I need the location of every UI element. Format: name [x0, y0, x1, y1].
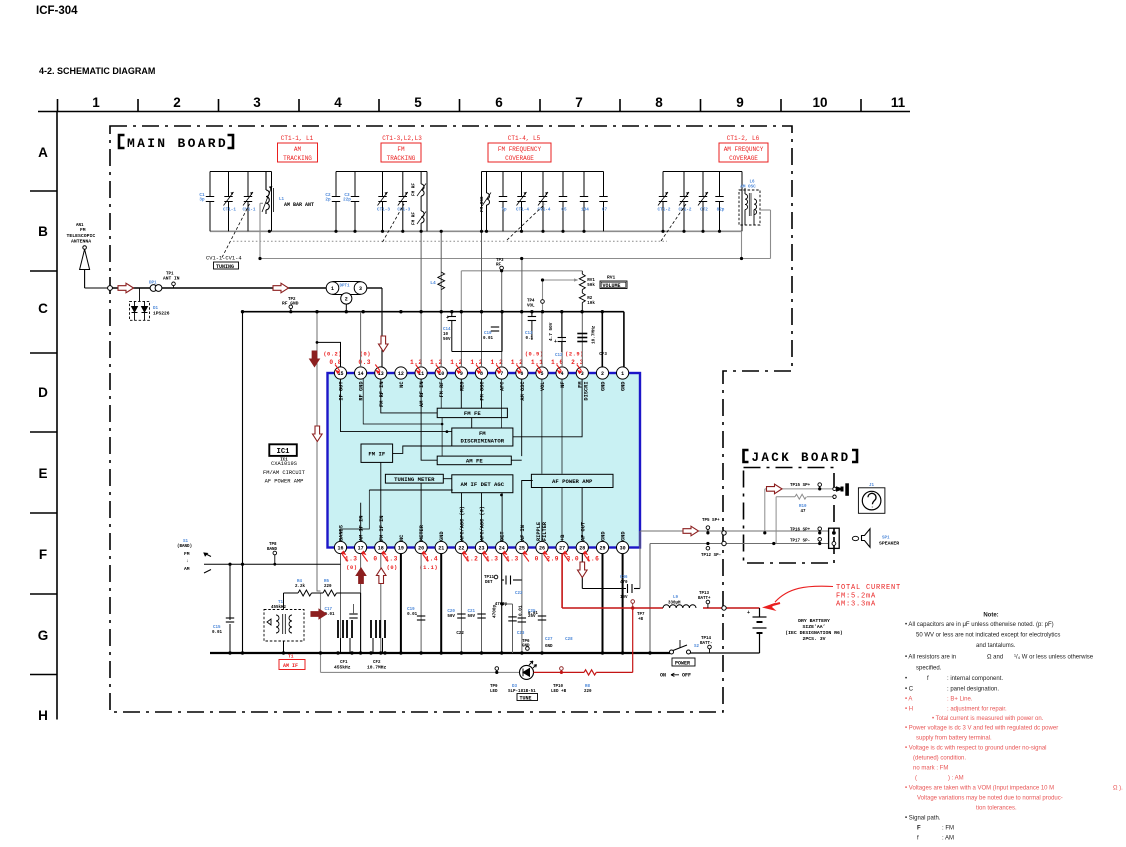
svg-text:CV1-3: CV1-3 [397, 208, 410, 213]
svg-text:SIZE’AA’: SIZE’AA’ [802, 624, 825, 630]
svg-text:(IEC DESIGNATION R6): (IEC DESIGNATION R6) [785, 630, 843, 636]
svg-text:• All capacitors are in μF unl: • All capacitors are in μF unless otherw… [905, 622, 1054, 628]
svg-text:L9: L9 [673, 596, 679, 600]
svg-text:AM FE: AM FE [466, 458, 483, 465]
svg-text:AM OSC: AM OSC [520, 381, 526, 401]
svg-text:4-2. SCHEMATIC DIAGRAM: 4-2. SCHEMATIC DIAGRAM [39, 66, 155, 76]
svg-text:• Voltages are taken with a VO: • Voltages are taken with a VOM (Input i… [905, 786, 1054, 792]
svg-text:• Total current is measured wi: • Total current is measured with power o… [932, 716, 1044, 722]
svg-text:CV1-1: CV1-1 [243, 208, 256, 213]
svg-text:455kHz: 455kHz [334, 665, 351, 671]
svg-text:12: 12 [398, 371, 404, 377]
svg-text:21: 21 [438, 546, 444, 552]
svg-text:DISCRIMINATOR: DISCRIMINATOR [460, 438, 504, 445]
svg-text:3.0: 3.0 [566, 556, 579, 563]
svg-text:F: F [917, 826, 921, 832]
svg-text:R4: R4 [297, 580, 303, 584]
svg-text:1.4: 1.4 [425, 556, 438, 563]
svg-text:supply from battery terminal.: supply from battery terminal. [916, 736, 992, 742]
svg-text:TRACKING: TRACKING [283, 155, 312, 162]
svg-text:1.3: 1.3 [345, 556, 358, 563]
svg-text:29: 29 [599, 546, 605, 552]
svg-text:2PCS. 3V: 2PCS. 3V [802, 636, 825, 642]
svg-text:TP4: TP4 [527, 300, 535, 304]
svg-text:AF IN: AF IN [520, 525, 526, 541]
svg-text:: adjustment for repair.: : adjustment for repair. [947, 707, 1007, 713]
svg-text:26: 26 [539, 546, 545, 552]
svg-text:4700p: 4700p [493, 604, 498, 618]
svg-text:2: 2 [173, 95, 181, 110]
svg-text:2.2k: 2.2k [295, 584, 306, 589]
svg-text:Ω and: Ω and [987, 655, 1003, 661]
svg-text:D: D [38, 385, 48, 400]
svg-text:TUNING METER: TUNING METER [394, 476, 435, 483]
svg-text:22p: 22p [343, 198, 351, 203]
svg-text:DP1: DP1 [149, 282, 157, 286]
svg-text:CF2: CF2 [373, 661, 381, 665]
svg-text:S2: S2 [694, 645, 700, 649]
svg-text:3: 3 [253, 95, 261, 110]
svg-text:470: 470 [620, 581, 628, 585]
svg-text:1: 1 [621, 371, 624, 377]
svg-text:: internal component.: : internal component. [947, 676, 1003, 682]
svg-text:GND: GND [522, 645, 530, 649]
svg-text:23: 23 [478, 546, 484, 552]
svg-text:C19: C19 [407, 608, 415, 612]
svg-text:10.7MHz: 10.7MHz [591, 325, 596, 344]
svg-text:0.01: 0.01 [483, 337, 494, 341]
svg-text:FM: FM [184, 551, 190, 557]
svg-text:GND: GND [545, 645, 553, 649]
svg-text:C15: C15 [213, 626, 221, 630]
svg-text:FM: FM [80, 227, 86, 233]
svg-text:MAIN BOARD: MAIN BOARD [127, 136, 228, 151]
svg-text:S1: S1 [183, 540, 189, 544]
svg-text:50 WV or less are not indicate: 50 WV or less are not indicated except f… [916, 633, 1060, 639]
svg-text:FM OSC: FM OSC [480, 196, 485, 212]
svg-text:AF POWER AMP: AF POWER AMP [552, 478, 593, 485]
svg-text:A: A [38, 145, 48, 160]
svg-text:•: • [905, 676, 907, 682]
svg-text:AFC: AFC [500, 381, 506, 391]
svg-text:L6: L6 [749, 181, 755, 185]
svg-text:RF: RF [496, 264, 502, 268]
svg-text:TRACKING: TRACKING [387, 155, 416, 162]
svg-text:RV1: RV1 [607, 275, 616, 281]
svg-text:TP6: TP6 [522, 640, 530, 644]
svg-text:CF3: CF3 [599, 353, 607, 357]
svg-text:VOLUME: VOLUME [603, 283, 621, 289]
svg-text:SPEAKER: SPEAKER [879, 541, 899, 547]
svg-text:330µH: 330µH [668, 602, 681, 606]
svg-text:: FM: : FM [942, 826, 954, 832]
svg-text:C20: C20 [447, 610, 455, 614]
svg-text:• H: • H [905, 707, 913, 713]
svg-text:C10: C10 [484, 332, 492, 336]
svg-text:• Signal path.: • Signal path. [905, 816, 941, 822]
svg-text:f: f [927, 676, 929, 682]
svg-text:50k: 50k [587, 283, 595, 288]
svg-text:TP8: TP8 [269, 543, 277, 547]
svg-text:AM FREQUNCY: AM FREQUNCY [724, 146, 764, 153]
svg-text:0.01: 0.01 [519, 605, 524, 616]
svg-text:0: 0 [535, 556, 539, 563]
svg-text:18: 18 [378, 546, 384, 552]
svg-text:CV1-4: CV1-4 [538, 208, 551, 213]
svg-text:C14: C14 [443, 328, 451, 332]
svg-text:POWER: POWER [675, 661, 690, 667]
svg-text:CT2: CT2 [700, 208, 708, 213]
svg-text:82p: 82p [717, 208, 725, 213]
svg-text:2.9: 2.9 [546, 556, 559, 563]
svg-text:DPT1: DPT1 [340, 285, 351, 289]
svg-text:ANTENNA: ANTENNA [71, 239, 91, 245]
svg-text:FM RF IN: FM RF IN [379, 382, 385, 407]
svg-text:455kHz: 455kHz [271, 605, 287, 610]
svg-text:9: 9 [736, 95, 744, 110]
svg-text:DET: DET [485, 581, 493, 585]
svg-text:CT1-2, L6: CT1-2, L6 [727, 135, 760, 142]
svg-text:+B: +B [638, 618, 644, 622]
svg-text:C13: C13 [525, 332, 533, 336]
svg-text:0: 0 [373, 556, 377, 563]
svg-text:(0): (0) [360, 352, 371, 358]
svg-text:NF: NF [560, 382, 566, 388]
svg-text:JACK BOARD: JACK BOARD [752, 451, 851, 465]
svg-text:AM BAR ANT: AM BAR ANT [284, 202, 314, 208]
svg-text:0.01: 0.01 [407, 613, 418, 617]
svg-text:CT1-3: CT1-3 [377, 208, 390, 213]
svg-text:220: 220 [324, 585, 332, 589]
svg-text:+: + [554, 339, 557, 345]
svg-text:↓: ↓ [186, 559, 189, 564]
svg-text:ANT IN: ANT IN [163, 275, 180, 281]
svg-text:FM RF: FM RF [439, 382, 445, 398]
svg-text:0.01: 0.01 [212, 631, 223, 635]
svg-text:CT1-2: CT1-2 [658, 208, 671, 213]
svg-text:NC: NC [399, 534, 405, 541]
svg-text:1: 1 [92, 95, 100, 110]
svg-text:17: 17 [358, 546, 364, 552]
svg-text:C22: C22 [515, 592, 523, 596]
svg-text:C17: C17 [325, 608, 333, 612]
svg-text:AM RF IN: AM RF IN [419, 382, 425, 407]
svg-text:FM IF IN: FM IF IN [379, 516, 385, 541]
svg-text:1PS226: 1PS226 [153, 311, 170, 317]
svg-text:25V: 25V [528, 615, 536, 619]
svg-text:FM FE: FM FE [464, 410, 481, 417]
svg-text:C28: C28 [565, 638, 573, 642]
svg-text:GND: GND [601, 382, 607, 392]
svg-text:TP14: TP14 [701, 637, 712, 641]
svg-text:COVERAGE: COVERAGE [729, 155, 758, 162]
svg-text:TP16 SP+: TP16 SP+ [790, 529, 811, 533]
svg-text:AFC/AGC (J): AFC/AGC (J) [480, 506, 486, 541]
svg-text:30: 30 [620, 546, 626, 552]
svg-text:COVERAGE: COVERAGE [505, 155, 534, 162]
svg-text:OFF: OFF [682, 673, 691, 679]
svg-text:TP9: TP9 [490, 685, 498, 689]
svg-text:C36: C36 [620, 576, 628, 580]
svg-text:CV1-1-CV1-4: CV1-1-CV1-4 [206, 256, 242, 262]
svg-text:GND: GND [439, 531, 445, 541]
svg-text:GND: GND [601, 531, 607, 541]
svg-text:REG: REG [459, 382, 465, 392]
svg-text:22: 22 [458, 546, 464, 552]
svg-text:(1.1): (1.1) [419, 565, 438, 571]
svg-text:50V: 50V [443, 338, 451, 342]
svg-text:TP17 SP-: TP17 SP- [790, 539, 810, 543]
svg-text:SP1: SP1 [882, 537, 890, 541]
svg-text:FILTER: FILTER [542, 521, 548, 541]
svg-text:1.3: 1.3 [486, 556, 499, 563]
svg-text:CT1-1: CT1-1 [223, 208, 236, 213]
svg-text:3: 3 [359, 286, 362, 292]
svg-text:TP12 SP-: TP12 SP- [701, 554, 721, 558]
svg-text:1: 1 [331, 286, 334, 292]
svg-text:FM RF: FM RF [412, 183, 417, 196]
svg-text:DRY BATTERY: DRY BATTERY [798, 618, 830, 624]
svg-text:F: F [39, 547, 47, 562]
svg-text:RF GND: RF GND [282, 301, 299, 307]
svg-text:104: 104 [581, 208, 589, 213]
svg-text:(0): (0) [346, 565, 357, 571]
svg-text:BAND: BAND [267, 548, 278, 552]
svg-text:220: 220 [584, 690, 592, 694]
svg-text:TP15 SP+: TP15 SP+ [790, 484, 811, 488]
svg-text:AM:3.3mA: AM:3.3mA [836, 601, 876, 609]
svg-text:GND: GND [621, 531, 627, 541]
svg-text:IF OUT: IF OUT [339, 381, 345, 401]
svg-text:14: 14 [358, 371, 364, 377]
svg-text:BANDS: BANDS [339, 524, 345, 541]
svg-text:• C: • C [905, 687, 914, 693]
svg-text:(0.2): (0.2) [323, 352, 342, 358]
svg-text:RF GND: RF GND [359, 382, 365, 401]
svg-text:Ω ).: Ω ). [1113, 786, 1123, 792]
svg-text:19: 19 [398, 546, 404, 552]
svg-text:DET: DET [500, 531, 506, 541]
svg-text:LED +B: LED +B [551, 690, 567, 694]
svg-text:2p: 2p [325, 198, 331, 203]
svg-text:CT1-4, L5: CT1-4, L5 [508, 135, 541, 142]
svg-text:C22: C22 [456, 632, 464, 636]
svg-text:G: G [38, 628, 49, 643]
svg-text:2: 2 [345, 297, 348, 303]
svg-text:1.6: 1.6 [587, 556, 600, 563]
svg-text:FM: FM [479, 430, 486, 437]
svg-text:TP10: TP10 [553, 685, 564, 689]
svg-text:D3: D3 [512, 685, 518, 689]
svg-text:AM IF DET AGC: AM IF DET AGC [460, 481, 504, 488]
svg-text:4: 4 [334, 95, 342, 110]
svg-text:ON: ON [660, 673, 666, 679]
svg-text:11: 11 [891, 95, 906, 110]
svg-text:CT1-3,L2,L3: CT1-3,L2,L3 [382, 135, 422, 142]
svg-text:R5: R5 [324, 580, 330, 584]
svg-text:T1: T1 [288, 654, 294, 660]
svg-text:: panel designation.: : panel designation. [947, 687, 999, 693]
svg-text:5: 5 [414, 95, 422, 110]
svg-text:+B: +B [560, 534, 566, 541]
svg-text:and tantalums.: and tantalums. [976, 643, 1016, 649]
svg-text:8: 8 [655, 95, 663, 110]
svg-text:AF POWER AMP: AF POWER AMP [265, 479, 304, 485]
svg-text:47: 47 [801, 510, 807, 514]
svg-text:TP13: TP13 [699, 592, 710, 596]
svg-text:CT1-1, L1: CT1-1, L1 [281, 135, 314, 142]
svg-text:no mark : FM: no mark : FM [913, 766, 948, 772]
svg-text:GND: GND [621, 382, 627, 392]
svg-text:AM: AM [294, 146, 302, 153]
svg-text:TUNE: TUNE [520, 696, 532, 702]
svg-text:1.3: 1.3 [506, 556, 519, 563]
svg-text:27: 27 [559, 546, 565, 552]
svg-text:C5: C5 [561, 208, 567, 213]
svg-text:TP11: TP11 [484, 576, 495, 580]
svg-text:L4: L4 [430, 280, 436, 286]
svg-text:D1: D1 [153, 307, 159, 311]
svg-text:(BAND): (BAND) [177, 544, 192, 549]
svg-text:(0.9): (0.9) [525, 352, 544, 358]
svg-text:¹/₄ W or less unless otherwise: ¹/₄ W or less unless otherwise [1014, 655, 1094, 661]
svg-text:BATT-: BATT- [700, 642, 713, 646]
svg-text:: AM: : AM [942, 836, 954, 842]
svg-text:f: f [917, 836, 919, 842]
svg-text:25: 25 [519, 546, 525, 552]
svg-text:50V: 50V [447, 615, 455, 619]
svg-text:VOL: VOL [527, 305, 535, 309]
svg-text:L1: L1 [279, 198, 285, 202]
svg-text:28: 28 [579, 546, 585, 552]
svg-text:C7: C7 [602, 208, 608, 213]
svg-text:(0): (0) [387, 565, 398, 571]
svg-text:7: 7 [575, 95, 583, 110]
svg-text:Voltage variations may be note: Voltage variations may be noted due to n… [917, 796, 1063, 802]
svg-text:10: 10 [812, 95, 827, 110]
svg-text:C23: C23 [517, 632, 525, 636]
svg-text:C27: C27 [545, 638, 553, 642]
svg-text:FM FREQUENCY: FM FREQUENCY [498, 146, 542, 153]
svg-text:C: C [38, 301, 48, 316]
svg-text:10k: 10k [587, 301, 595, 306]
svg-text:• All resistors are in: • All resistors are in [905, 655, 956, 661]
svg-text:50V: 50V [468, 615, 476, 619]
svg-text:FM IF: FM IF [368, 451, 385, 458]
svg-text:20: 20 [418, 546, 424, 552]
svg-text:VOL: VOL [540, 382, 546, 392]
svg-text:CV1-2: CV1-2 [679, 208, 692, 213]
svg-text:CT1-4: CT1-4 [516, 208, 529, 213]
svg-text:FM/AM CIRCUIT: FM/AM CIRCUIT [263, 470, 306, 476]
svg-text:AFC/AGC (M): AFC/AGC (M) [459, 506, 465, 541]
svg-text:6: 6 [495, 95, 503, 110]
svg-text:7p: 7p [501, 208, 507, 213]
svg-text:Note:: Note: [983, 613, 998, 619]
svg-text:• A: • A [905, 697, 912, 703]
svg-text:10.7MHz: 10.7MHz [367, 665, 387, 671]
svg-text:TELESCOPIC: TELESCOPIC [67, 233, 96, 239]
svg-text:TP3: TP3 [496, 259, 504, 263]
svg-text:IC1: IC1 [277, 448, 291, 456]
svg-text:: B+ Line.: : B+ Line. [947, 697, 973, 703]
svg-text:C12: C12 [555, 354, 563, 358]
svg-text:specified.: specified. [916, 666, 942, 672]
svg-text:FM RF: FM RF [412, 212, 417, 225]
svg-text:BATT+: BATT+ [698, 597, 711, 601]
svg-text:(2.9): (2.9) [565, 352, 584, 358]
svg-text:tion tolerances.: tion tolerances. [976, 806, 1017, 812]
svg-text:LED: LED [490, 690, 498, 694]
svg-text:(detuned) condition.: (detuned) condition. [913, 756, 966, 762]
svg-text:+: + [446, 315, 449, 321]
svg-text:• Power voltage is dc 3 V and: • Power voltage is dc 3 V and fed with r… [905, 726, 1058, 732]
svg-text:R8: R8 [585, 685, 591, 689]
svg-text:1.3: 1.3 [385, 556, 398, 563]
svg-text:AM OSC: AM OSC [740, 185, 756, 190]
svg-text:AF OUT: AF OUT [580, 521, 586, 541]
svg-text:METER: METER [419, 524, 425, 541]
svg-text:24: 24 [499, 546, 505, 552]
svg-text:+: + [747, 610, 750, 616]
svg-text:2: 2 [601, 371, 604, 377]
svg-text:FM:5.2mA: FM:5.2mA [836, 593, 876, 601]
svg-text:CXA1019S: CXA1019S [271, 461, 297, 467]
svg-text:TOTAL CURRENT: TOTAL CURRENT [836, 584, 901, 592]
svg-text:R2: R2 [587, 297, 593, 301]
svg-text:0.1: 0.1 [526, 337, 534, 341]
svg-text:E: E [38, 466, 47, 481]
svg-text:(: ( [915, 776, 917, 782]
svg-text:H: H [38, 708, 48, 723]
svg-text:NC: NC [399, 381, 405, 388]
svg-text:CF1: CF1 [340, 661, 348, 665]
svg-text:TP5 SP+: TP5 SP+ [702, 519, 720, 523]
svg-text:FM: FM [397, 146, 405, 153]
svg-text:T1: T1 [278, 601, 284, 605]
svg-text:AM: AM [184, 566, 190, 572]
svg-text:B: B [38, 224, 48, 239]
svg-text:C21: C21 [468, 610, 476, 614]
svg-text:FM OSC: FM OSC [480, 381, 486, 401]
svg-text:TUNING: TUNING [216, 264, 234, 270]
svg-text:10V: 10V [620, 596, 628, 600]
svg-text:16: 16 [337, 546, 343, 552]
svg-text:1.2: 1.2 [466, 556, 479, 563]
svg-text:3p: 3p [199, 198, 205, 203]
svg-text:) : AM: ) : AM [948, 776, 964, 782]
svg-text:TP7: TP7 [637, 613, 645, 617]
svg-text:RV1: RV1 [587, 279, 595, 283]
svg-text:10: 10 [443, 333, 449, 337]
svg-text:R10: R10 [799, 505, 807, 509]
svg-text:ICF-304: ICF-304 [36, 5, 78, 17]
svg-text:• Voltage is dc with respect t: • Voltage is dc with respect to ground u… [905, 746, 1047, 752]
svg-text:AM IF: AM IF [283, 663, 298, 669]
svg-text:DISCRI: DISCRI [583, 382, 589, 401]
svg-text:AM IF IN: AM IF IN [359, 516, 365, 541]
svg-text:C25: C25 [528, 610, 536, 614]
